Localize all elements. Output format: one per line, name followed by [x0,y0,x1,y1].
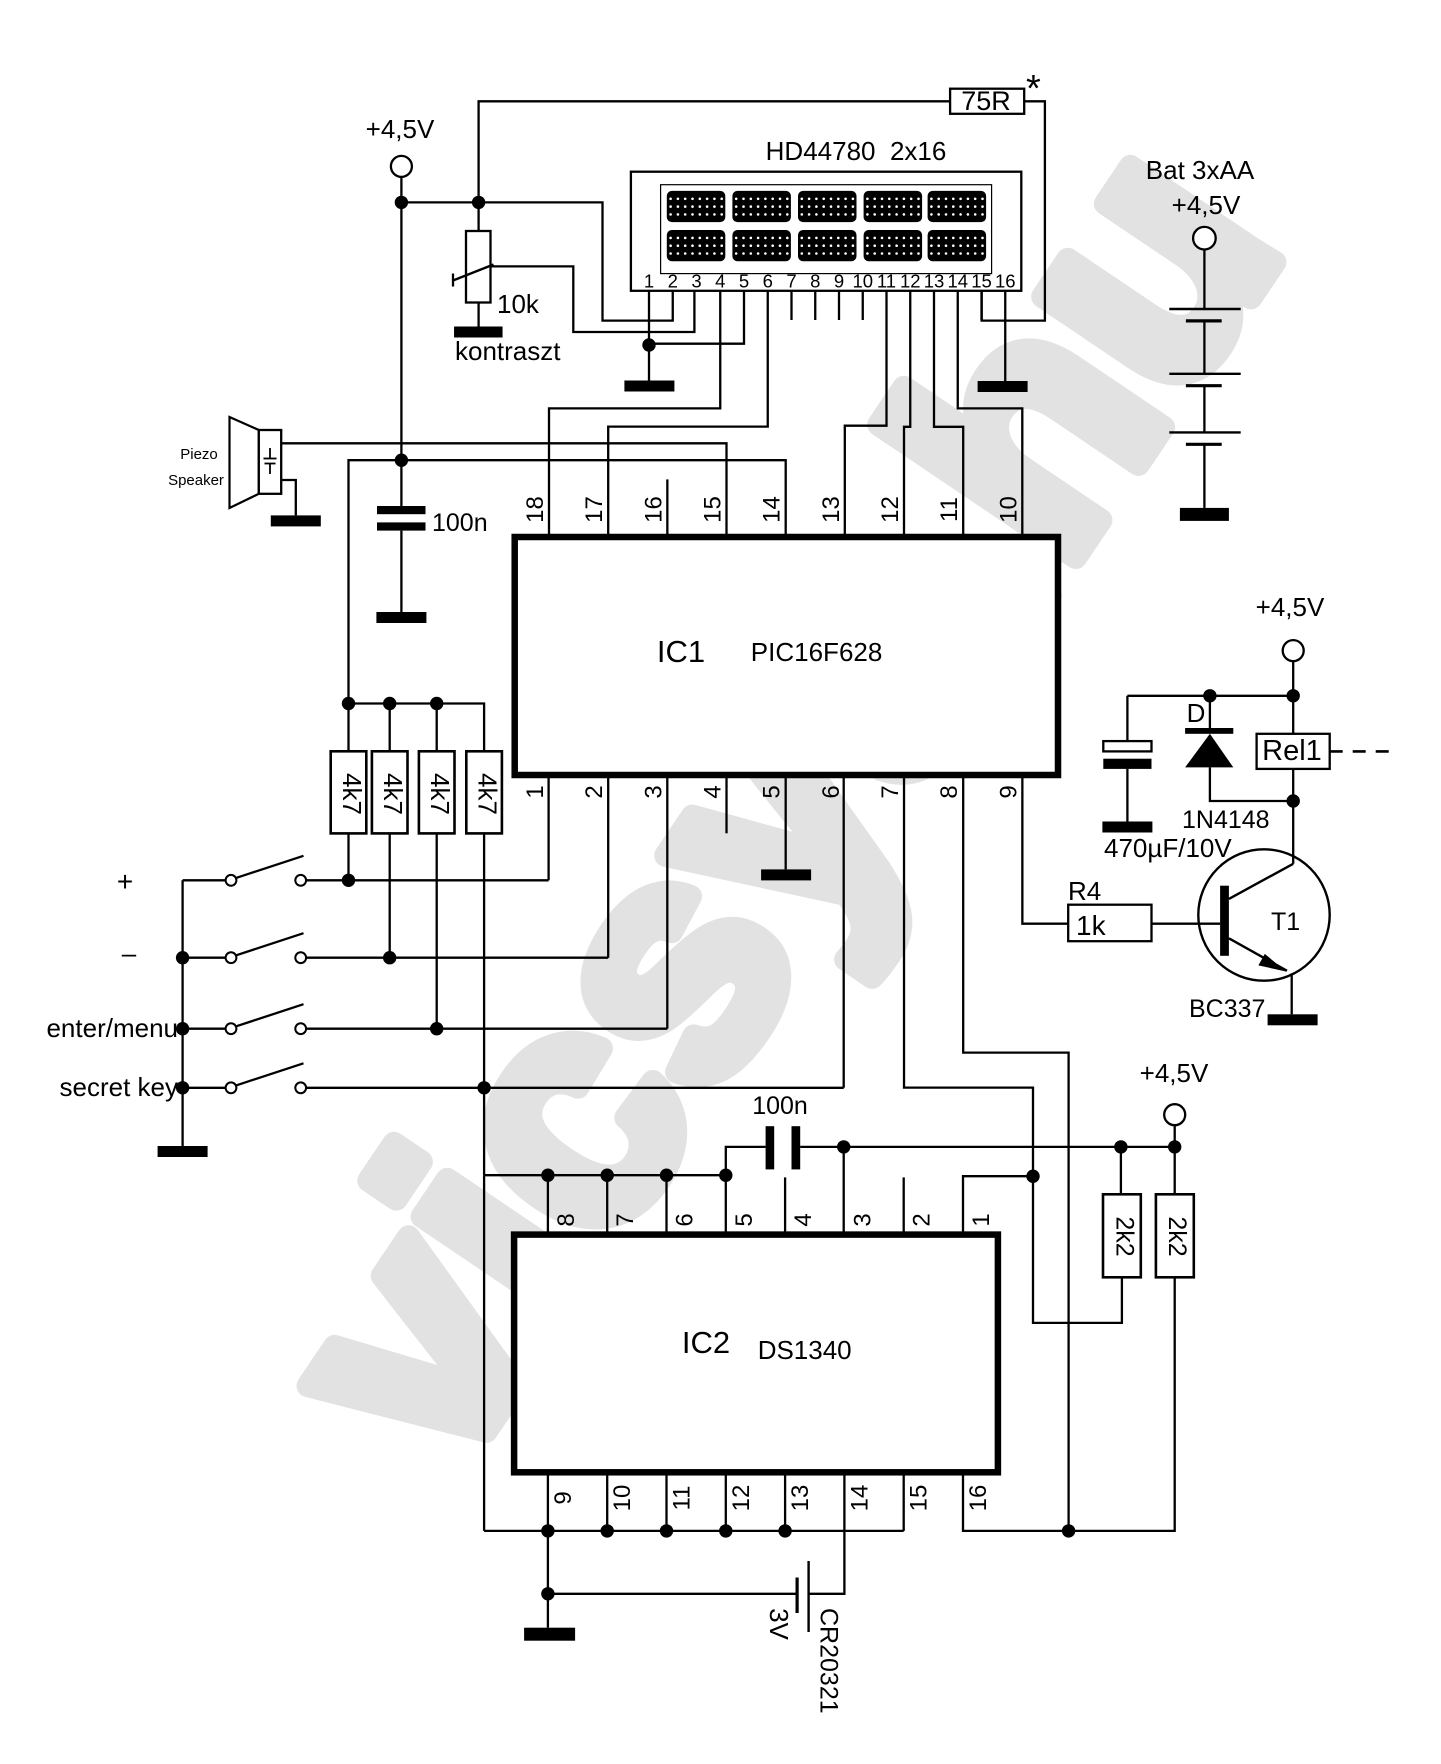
wire [483,833,485,1087]
label 1N4148 [1182,806,1270,834]
battery B1 3xAA [1169,227,1240,508]
label IC2 pin 12 [728,1485,755,1512]
label IC2 pin 2 [909,1213,936,1226]
wire LCD pin1 to ground [648,291,650,345]
label HD44780 2x16 [766,136,947,166]
svg-text:+4,5V: +4,5V [366,114,435,144]
node junction [1287,794,1300,807]
wire LCD pin12 to IC1 pin12 [904,291,910,537]
svg-text:7: 7 [877,785,904,798]
node junction [1168,1140,1181,1153]
svg-text:–: – [122,938,137,968]
label IC2 pin 14 [846,1485,873,1512]
wire [477,202,479,231]
wire +4.5V rail to LCD pin2 [401,202,672,320]
wire [1127,695,1293,697]
svg-text:18: 18 [522,496,549,523]
label kontraszt [455,336,561,366]
svg-text:Speaker: Speaker [168,472,224,489]
label T1 [1271,908,1300,936]
wire LCD pin9 stub [838,291,840,320]
ground [978,381,1028,392]
label pin 3 [640,785,667,798]
svg-text:8: 8 [936,785,963,798]
node junction [472,196,485,209]
ground [524,1628,575,1641]
svg-text:9: 9 [834,271,844,292]
node junction [1203,689,1216,702]
svg-text:14: 14 [947,271,968,292]
wire IC1 pin8 to IC2 pin16 [963,775,1068,1531]
label Speaker [168,472,224,489]
label - [122,938,137,968]
svg-text:+: + [117,866,133,897]
svg-text:CR20321: CR20321 [815,1608,843,1714]
wire emitter [1291,973,1293,1014]
wire [548,1593,797,1595]
switch S2 [183,933,307,963]
wire dashed to relay contacts [1330,750,1397,753]
label Piezo [180,446,218,463]
resistor R3 4k7 [419,751,455,833]
svg-text:3: 3 [849,1213,876,1226]
svg-text:BC337: BC337 [1189,995,1265,1023]
wire +4.5V to IC1 pin14 [349,460,786,703]
potentiometer 10k [453,231,494,303]
node junction [837,1140,850,1153]
decorative watermark [205,78,1347,1524]
label IC2 pin 7 [612,1213,639,1226]
label IC2 pin 16 [965,1485,992,1512]
svg-text:4k7: 4k7 [378,773,408,815]
wire IC1 pin7 to IC2 pin1 [904,775,1033,1235]
power terminal +4,5V (right) [1256,592,1325,661]
node junction [601,1169,614,1182]
svg-text:6: 6 [763,271,773,292]
svg-text:+4,5V: +4,5V [1256,592,1325,622]
svg-text:12: 12 [877,496,904,523]
label pin 13 [818,496,845,523]
label * [1026,68,1041,110]
wire [400,177,402,202]
node junction [1026,1170,1039,1183]
svg-text:2: 2 [668,271,678,292]
wire [1292,769,1294,801]
svg-text:DS1340: DS1340 [758,1335,852,1365]
svg-text:Rel1: Rel1 [1262,735,1322,767]
capacitor 470uF/10V [1103,741,1151,769]
node junction [176,1022,189,1035]
node junction [395,454,408,467]
svg-text:10: 10 [609,1485,636,1512]
wire [726,1147,766,1175]
wire IC2 left rail [483,1175,485,1531]
svg-text:14: 14 [846,1485,873,1512]
relay Rel1 [1257,734,1330,769]
wire to IC1 pin6 [843,775,845,1088]
svg-text:11: 11 [936,497,963,522]
svg-text:1: 1 [644,271,654,292]
wire IC1 pin9 to R4 [1022,775,1068,924]
transistor Q1 T1 BC337 [1198,849,1329,980]
wire [725,1472,727,1531]
diode D 1N4148 [1185,696,1293,801]
wire to IC1 pin3 [666,775,668,1029]
wire [347,833,349,880]
svg-text:11: 11 [877,271,896,292]
svg-text:15: 15 [700,496,727,523]
battery B2 CR2032 3V [797,1561,809,1632]
svg-text:12: 12 [900,271,921,292]
node junction [176,951,189,964]
wire [436,833,438,1028]
wire [281,480,296,515]
wire [1120,1147,1122,1194]
label pin 8 [936,785,963,798]
wire [784,1472,786,1531]
wire LCD pin11 to IC1 pin13 [845,291,887,537]
svg-text:secret key: secret key [60,1072,179,1102]
switch S3 [183,1004,307,1034]
svg-text:12: 12 [728,1485,755,1512]
svg-text:10: 10 [852,271,873,292]
svg-text:16: 16 [640,496,667,523]
wire [436,704,438,752]
label pin 1 [522,785,549,798]
svg-text:3V: 3V [764,1608,794,1640]
wire to IC1 pin1 [547,775,549,880]
svg-text:IC2: IC2 [682,1325,730,1360]
svg-text:enter/menu: enter/menu [46,1013,178,1043]
label IC2 pin 8 [553,1213,580,1226]
svg-text:10k: 10k [497,289,540,319]
svg-text:2: 2 [909,1213,936,1226]
wire LCD pin5 to ground node [649,291,744,344]
svg-text:1: 1 [522,785,549,798]
LCD display HD44780 2x16 [631,172,1021,292]
svg-text:6: 6 [672,1213,699,1226]
label IC2 pin 5 [731,1213,758,1226]
node junction [383,951,396,964]
label 100n [752,1092,808,1120]
node junction [1062,1524,1075,1537]
svg-text:2k2: 2k2 [1163,1216,1191,1256]
label +4,5V [1172,190,1241,220]
label pin 14 [759,496,786,523]
wire [665,1175,667,1234]
wire [547,1175,549,1234]
capacitor C 100n [377,506,426,531]
svg-text:5: 5 [759,785,786,798]
label IC2 pin 9 [550,1491,577,1504]
label IC2 pin 15 [906,1485,933,1512]
wire [648,345,650,381]
svg-text:15: 15 [971,271,992,292]
node junction [176,1081,189,1094]
label + [117,866,133,897]
svg-text:5: 5 [739,271,749,292]
svg-text:9: 9 [550,1491,577,1504]
wire [306,879,548,881]
svg-text:11: 11 [669,1486,696,1511]
label IC2 pin 1 [968,1213,995,1226]
wire [606,1175,608,1234]
capacitor 100n (IC2) [766,1126,801,1169]
wire [347,704,349,752]
label Bat 3xAA [1146,155,1255,185]
resistor R1 4k7 [331,751,367,833]
label IC2 pin 13 [787,1485,814,1512]
svg-text:13: 13 [787,1485,814,1512]
node junction [719,1524,732,1537]
label enter/menu [46,1013,178,1043]
wire to IC1 pin2 [607,775,609,958]
svg-text:kontraszt: kontraszt [455,336,561,366]
svg-text:IC1: IC1 [657,634,705,669]
svg-text:4k7: 4k7 [425,773,455,815]
ground [1180,508,1229,521]
wire LCD pin13 to IC1 pin11 [934,291,963,537]
label 3V [764,1608,794,1640]
label pin 17 [581,496,608,523]
wire LCD pin16 to ground [1004,291,1006,381]
label pin 4 [700,785,727,798]
label pin 7 [877,785,904,798]
label CR20321 [815,1608,843,1714]
svg-text:T1: T1 [1271,908,1300,936]
node junction [477,1081,490,1094]
svg-text:100n: 100n [752,1092,808,1120]
power terminal +4,5V (left) [366,114,435,177]
wire [389,704,391,752]
wire LCD pin10 stub [862,291,864,320]
node junction [541,1524,554,1537]
label D [1187,698,1206,728]
node junction [541,1587,554,1600]
svg-text:17: 17 [581,496,608,523]
svg-text:5: 5 [731,1213,758,1226]
label pin 2 [581,785,608,798]
resistor R4 1k [1068,876,1152,941]
wire LCD pin4 to IC1 pin18 [549,291,720,537]
svg-text:9: 9 [995,785,1022,798]
wire IC2 bottom bus [484,1530,904,1532]
svg-text:2k2: 2k2 [1110,1216,1138,1256]
node junction [660,1169,673,1182]
wire LCD pin15 [980,291,982,321]
svg-text:16: 16 [995,271,1016,292]
label pin 5 [759,785,786,798]
wire IC2 pin14 to battery [809,1472,845,1594]
svg-text:13: 13 [924,271,945,292]
label IC2 pin 10 [609,1485,636,1512]
wire 75R feed [479,101,950,202]
label 100n [432,509,488,537]
node junction [719,1169,732,1182]
svg-text:PIC16F628: PIC16F628 [751,637,883,667]
wire LCD pin14 to IC1 pin10 [958,291,1023,537]
svg-text:6: 6 [818,785,845,798]
node junction [1114,1140,1127,1153]
node junction [541,1169,554,1182]
node junction [342,874,355,887]
label pin 12 [877,496,904,523]
svg-text:Bat 3xAA: Bat 3xAA [1146,155,1255,185]
wire wiper to LCD pin3 [491,266,695,332]
node junction [660,1524,673,1537]
ground [271,515,321,526]
wire VCC line [800,1146,1174,1148]
wire switch bus [181,880,183,1146]
label secret key [60,1072,179,1102]
svg-text:4: 4 [790,1213,817,1226]
label pin 6 [818,785,845,798]
resistor R6 2k2 [1156,1194,1194,1277]
svg-text:1N4148: 1N4148 [1182,806,1270,834]
wire LCD pin8 stub [814,291,816,320]
wire IC2 pin16 to 2k2 [963,1277,1175,1531]
svg-text:8: 8 [810,271,820,292]
ground [761,869,811,880]
ground [1268,1014,1318,1025]
wire IC1 pin4 stub [725,775,727,833]
ground [454,327,503,338]
wire to 2k2 [1033,1176,1122,1323]
label pin 15 [700,496,727,523]
svg-text:4: 4 [715,271,725,292]
wire [1292,661,1294,734]
svg-text:1: 1 [968,1213,995,1226]
svg-text:13: 13 [818,496,845,523]
node junction [395,196,408,209]
svg-text:8: 8 [553,1213,580,1226]
wire [306,1087,844,1089]
resistor R4 4k7 [466,751,502,833]
piezo speaker [230,417,282,508]
wire speaker to IC1 pin15 [281,443,726,537]
wire IC2 pin15 [903,1472,905,1531]
resistor 75R [950,86,1024,116]
svg-text:3: 3 [691,271,701,292]
label 470µF/10V [1104,833,1232,863]
label pin 16 [640,496,667,523]
wire IC2 top bus [484,1174,726,1176]
wire [1174,1147,1176,1194]
label 10k [497,289,540,319]
svg-text:HD44780 2x16: HD44780 2x16 [766,136,947,166]
wire IC2 pin4 stub [784,1177,786,1234]
svg-text:7: 7 [612,1213,639,1226]
node junction [642,338,655,351]
wire IC1 pin16 stub [666,479,668,537]
node junction [601,1524,614,1537]
svg-text:1k: 1k [1076,910,1107,941]
wire IC1 pin5 to ground [785,775,787,869]
svg-text:4k7: 4k7 [337,773,367,815]
ground [158,1146,208,1157]
node junction [430,1022,443,1035]
wire LCD pin6 to IC1 pin17 [608,291,768,537]
wire IC2 pin2 stub [903,1177,905,1234]
wire LCD pin7 stub [790,291,792,320]
svg-text:7: 7 [786,271,796,292]
wire [606,1472,608,1531]
svg-text:470µF/10V: 470µF/10V [1104,833,1232,863]
resistor R2 4k7 [372,751,408,833]
wire [1174,1125,1176,1147]
power terminal +4,5V (bottom) [1140,1058,1209,1125]
svg-text:16: 16 [965,1485,992,1512]
resistor R5 2k2 [1103,1194,1141,1277]
wire [389,833,391,957]
wire [306,1028,667,1030]
label IC2 pin 4 [790,1213,817,1226]
label pin 10 [995,496,1022,523]
node junction [383,697,396,710]
switch S4 [183,1063,307,1093]
svg-text:10: 10 [995,496,1022,523]
svg-text:4k7: 4k7 [473,773,503,815]
svg-text:D: D [1187,698,1206,728]
wire [400,531,402,612]
label pin 11 [936,497,963,522]
wire [1152,923,1221,925]
svg-text:Piezo: Piezo [180,446,218,463]
wire [665,1472,667,1531]
svg-text:15: 15 [906,1485,933,1512]
op-amp U1 IC1 PIC16F628 [515,537,1058,775]
svg-text:75R: 75R [961,86,1011,116]
ground [1102,822,1152,833]
wire [1126,696,1128,741]
wire IC2 pin9 to ground [547,1531,549,1628]
svg-text:2: 2 [581,785,608,798]
svg-text:14: 14 [759,496,786,523]
label pin 9 [995,785,1022,798]
svg-text:4: 4 [700,785,727,798]
wire +4.5V vertical to 100n [400,202,402,506]
wire [477,303,479,328]
label IC2 pin 11 [669,1486,696,1511]
switch S1 [183,856,307,886]
wire 4k7 top bus [349,704,485,752]
node junction [778,1524,791,1537]
wire 75R to LCD pin15 [982,101,1045,320]
wire collector [1292,801,1294,864]
svg-text:100n: 100n [432,509,488,537]
node junction [430,697,443,710]
wire to IC2 bus [483,1088,485,1175]
svg-text:+4,5V: +4,5V [1172,190,1241,220]
label pin 18 [522,496,549,523]
svg-text:*: * [1026,68,1041,110]
ground [624,381,674,392]
label IC2 pin 6 [672,1213,699,1226]
wire [306,957,608,959]
ground [376,612,426,623]
svg-text:3: 3 [640,785,667,798]
svg-text:R4: R4 [1068,876,1101,906]
node junction [342,697,355,710]
chip IC2 DS1340 [514,1235,998,1473]
wire IC2 pin3 to VCC [843,1147,845,1235]
label BC337 [1189,995,1265,1023]
svg-text:+4,5V: +4,5V [1140,1058,1209,1088]
wire [725,1175,727,1234]
wire [547,1472,549,1531]
label IC2 pin 3 [849,1213,876,1226]
node junction [1287,689,1300,702]
